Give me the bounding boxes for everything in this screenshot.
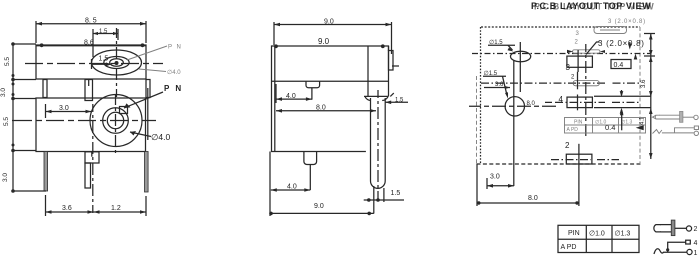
svg-text:1.2: 1.2 — [111, 205, 121, 212]
switch common squiggle — [654, 249, 663, 254]
body mid horizontal line — [272, 80, 389, 82]
front horizontal centerline — [12, 120, 156, 122]
dimension 3.0 bottom left — [487, 174, 514, 190]
slot row1 gray stadium — [567, 50, 605, 54]
ghost switch wires — [662, 128, 694, 133]
dimension 9.0 top — [274, 18, 392, 54]
svg-text:PIN: PIN — [574, 120, 583, 126]
front ring circle — [103, 108, 129, 134]
contact notch — [120, 107, 128, 114]
switch riser wire — [668, 242, 686, 252]
dimension 8.5 top — [36, 17, 146, 43]
ghost left arrow — [636, 125, 644, 130]
mounting lug right between views — [146, 80, 150, 98]
tube left wall — [370, 98, 372, 181]
dimension 8.0 bottom — [477, 164, 579, 206]
svg-text:5.5: 5.5 — [4, 57, 11, 66]
mounting lug middle between views — [85, 80, 93, 101]
row3 height dim arrows — [594, 90, 651, 115]
svg-text:P N: P N — [164, 84, 183, 93]
dimension 1.5 upper right — [385, 97, 408, 104]
plug barrel symbol — [654, 225, 673, 232]
hole ellipse upper — [510, 51, 530, 61]
svg-text:A PD: A PD — [567, 127, 579, 133]
front body inner right wall — [147, 88, 149, 140]
row4 dashed centerline — [551, 159, 619, 161]
dimension 9.0 bottom — [269, 152, 374, 217]
dimension 1.5 above ellipse — [93, 29, 118, 57]
bottom dimension 3.6 and 1.2 — [46, 195, 147, 216]
svg-text:∅4.0: ∅4.0 — [167, 69, 181, 76]
row2 dashed centerline — [481, 82, 641, 84]
svg-text:8. 5: 8. 5 — [85, 17, 97, 24]
middle pin leg — [85, 163, 91, 188]
terminal 4 square — [686, 240, 691, 244]
barrel step to tube — [364, 93, 394, 100]
dimension 4.0 upper — [276, 84, 312, 103]
upper middle tab — [306, 81, 320, 88]
mounting lug left between views — [43, 80, 47, 98]
barrel inner ellipse — [110, 59, 124, 67]
ghost switch squiggle — [653, 130, 662, 134]
switch wire bottom — [663, 251, 687, 253]
right vertical dimension 3.6 — [640, 34, 656, 160]
slot column dash-dot centerline — [585, 44, 587, 136]
left vertical dimension chain — [0, 42, 46, 193]
svg-text:3.0: 3.0 — [490, 174, 500, 181]
dimension 3.0 inside front view — [46, 104, 92, 118]
svg-text:4: 4 — [694, 240, 698, 247]
svg-text:3.0: 3.0 — [0, 88, 7, 97]
big hole horizontal centerline — [469, 105, 556, 107]
svg-text:0.4: 0.4 — [614, 62, 624, 69]
svg-text:8.0: 8.0 — [316, 105, 326, 112]
table column divider 1 — [585, 225, 587, 252]
slot row4 pad rect — [565, 141, 592, 167]
lower tab centerline — [309, 165, 311, 190]
middle pin tab — [85, 152, 99, 163]
middle pin centerline — [92, 104, 94, 213]
terminal 1 circle — [687, 249, 692, 254]
switch contact arrow — [666, 248, 669, 251]
leader to ghost PN label — [127, 46, 167, 60]
lower middle tab — [304, 152, 317, 165]
svg-text:2: 2 — [694, 226, 698, 233]
right pin leg — [145, 152, 149, 193]
inner 1.5 pin dimension — [92, 56, 113, 70]
top view horizontal centerline — [25, 63, 163, 65]
ghost slot top — [576, 27, 627, 38]
callout 3 (2.0x0.8) — [586, 39, 645, 55]
wire to terminal 2 — [675, 227, 686, 229]
pin spec table — [558, 225, 639, 252]
svg-text:8.0: 8.0 — [528, 195, 538, 202]
ghost plug tip plate — [680, 111, 683, 122]
svg-text:3.6: 3.6 — [62, 205, 72, 212]
ghost connector schematic — [653, 111, 699, 135]
svg-text:1: 1 — [694, 250, 698, 257]
ghost terminal circle bottom — [694, 131, 698, 135]
front vertical centerline — [115, 95, 117, 153]
ghost terminal square — [694, 126, 698, 130]
svg-text:3.0: 3.0 — [59, 105, 69, 112]
svg-text:1.5: 1.5 — [391, 190, 401, 197]
svg-text:2: 2 — [565, 141, 570, 150]
ghost terminal circle top — [694, 115, 698, 119]
row1 dashed centerline — [472, 53, 650, 55]
slot row2 stadium — [571, 72, 599, 90]
ghost dimension 9.0 on edge — [274, 37, 385, 48]
hole dia1.5 label lower — [483, 70, 508, 99]
svg-text:9.0: 9.0 — [318, 37, 330, 46]
body inner left wall — [274, 46, 276, 152]
tube centerline — [377, 90, 379, 199]
side body outline — [272, 46, 389, 152]
table outer frame — [558, 225, 639, 252]
terminal 2 circle — [686, 226, 691, 231]
svg-text:3.6: 3.6 — [641, 79, 647, 88]
svg-text:∅1.0: ∅1.0 — [589, 231, 605, 238]
barrel front wall — [367, 46, 369, 96]
svg-text:9.0: 9.0 — [324, 18, 334, 25]
svg-text:1.5: 1.5 — [395, 97, 404, 103]
tube rounded bottom — [371, 181, 386, 188]
svg-text:1.5: 1.5 — [99, 29, 108, 35]
barrel outer ellipse — [92, 50, 142, 75]
front inner pin circle — [107, 112, 123, 128]
svg-text:5.5: 5.5 — [3, 117, 10, 126]
hole dia1.5 label upper — [488, 39, 515, 52]
svg-text:3.0: 3.0 — [2, 173, 9, 182]
svg-text:4: 4 — [559, 95, 564, 104]
big hole vertical centerline — [513, 60, 515, 186]
pcb outline dotted rectangle — [477, 27, 643, 164]
svg-text:9.0: 9.0 — [314, 203, 324, 210]
top view vertical centerline — [116, 28, 118, 97]
svg-text:3 (2.0×0.8): 3 (2.0×0.8) — [598, 39, 645, 48]
svg-text:A PD: A PD — [561, 244, 577, 251]
front outer circle — [90, 95, 142, 147]
svg-text:P N: P N — [168, 45, 182, 51]
ghost dimension 8.6 on box edge — [40, 39, 145, 47]
slot row1 pad rect — [566, 50, 593, 72]
LEFT VIEW: jack top view — [25, 17, 182, 100]
svg-text:3 (2.0×0.8): 3 (2.0×0.8) — [608, 19, 646, 25]
leader to ghost dia 4.0 label — [139, 69, 166, 72]
svg-text:P.C.B LAYOUT TOP VIEW: P.C.B LAYOUT TOP VIEW — [531, 1, 651, 11]
svg-text:∅1.3: ∅1.3 — [615, 231, 631, 238]
dimension 4.0 lower — [271, 184, 311, 192]
upper tab centerline — [311, 88, 313, 100]
MIDDLE VIEW: jack side view — [269, 18, 408, 216]
table row divider — [558, 238, 639, 240]
bump side tick — [392, 65, 399, 67]
big hole circle — [505, 97, 524, 116]
dimension 8.0 — [276, 105, 376, 113]
svg-text:∅4.0: ∅4.0 — [151, 132, 170, 142]
svg-text:4.0: 4.0 — [287, 184, 297, 191]
barrel tip bump — [389, 51, 394, 71]
dim 0.4 box with arrows — [611, 42, 637, 69]
svg-text:3: 3 — [566, 63, 571, 72]
center pin dot — [115, 61, 119, 65]
left pin leg — [44, 152, 48, 192]
leader to PN label — [124, 92, 163, 108]
ghost vertical arrow through table — [620, 109, 624, 130]
ghost wire to terminal — [683, 116, 694, 118]
svg-text:8.0: 8.0 — [527, 101, 536, 107]
svg-text:4.0: 4.0 — [286, 93, 296, 100]
top view body rectangle — [36, 45, 146, 79]
title P.C.B LAYOUT TOP VIEW — [531, 1, 654, 12]
plug tip contact plate — [671, 220, 675, 236]
vertical link line through holes — [519, 42, 521, 92]
front view body rectangle — [36, 98, 146, 152]
leader to dia 4.0 label — [130, 131, 151, 137]
connector schematic — [654, 220, 698, 257]
slot row3 pad rect — [559, 95, 593, 111]
svg-text:1.5: 1.5 — [99, 56, 109, 63]
svg-text:PIN: PIN — [568, 230, 580, 237]
LEFT VIEW: jack front view — [0, 42, 183, 216]
tube right wall — [384, 98, 386, 181]
barrel outer wall — [388, 46, 390, 96]
svg-text:∅1.3: ∅1.3 — [621, 120, 633, 126]
ghost plug barrel symbol — [653, 115, 680, 119]
svg-text:0.4: 0.4 — [605, 123, 615, 132]
PCB LAYOUT TOP VIEW — [469, 1, 655, 206]
table column divider 2 — [611, 225, 613, 252]
ghost dim 3.6 small — [484, 82, 510, 89]
dimension 1.5 lower right — [364, 186, 404, 214]
row3 dashed centerline — [545, 101, 640, 103]
ghost table in layout — [565, 118, 646, 134]
barrel middle ellipse — [104, 57, 129, 69]
